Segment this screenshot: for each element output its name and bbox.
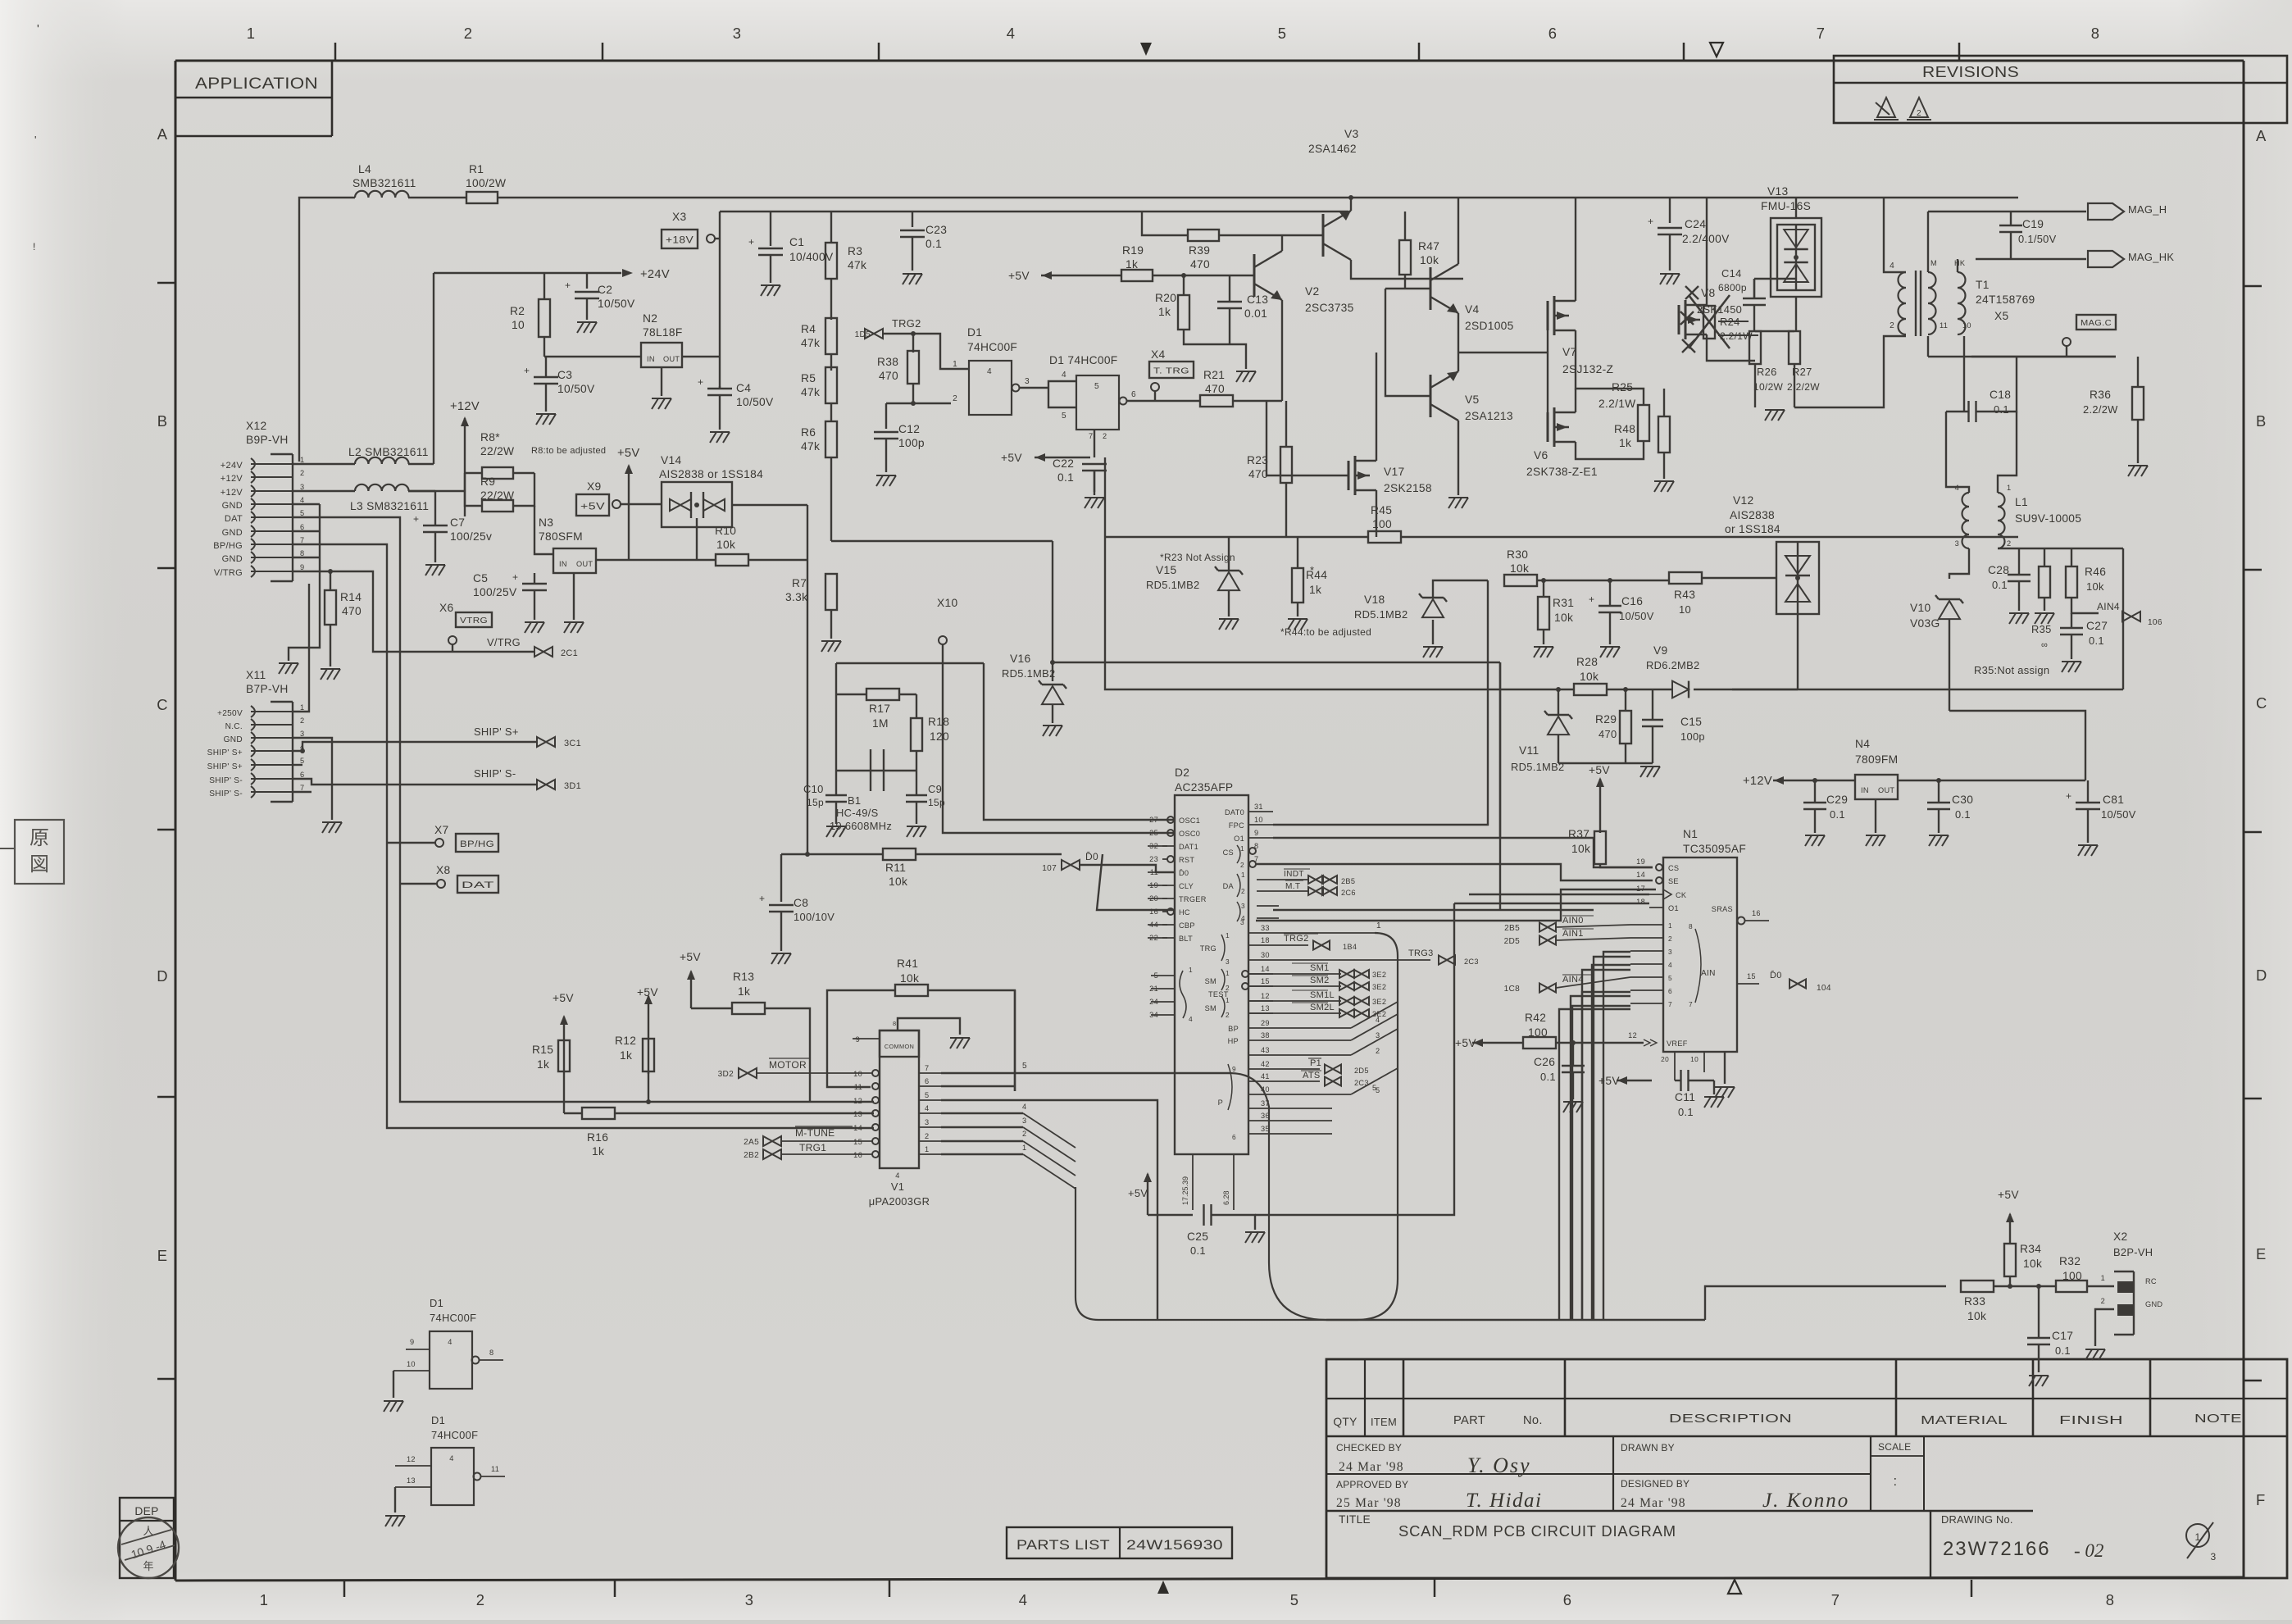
svg-text:1: 1 [247, 25, 256, 42]
svg-text:BP: BP [1228, 1025, 1239, 1033]
svg-text:7809FM: 7809FM [1855, 753, 1898, 766]
svg-text:4: 4 [1019, 1591, 1028, 1608]
svg-text:2: 2 [1241, 887, 1245, 895]
svg-text:R3: R3 [848, 245, 862, 257]
svg-text:+: + [524, 365, 530, 376]
svg-text:7: 7 [1689, 1000, 1693, 1008]
svg-text:DESIGNED BY: DESIGNED BY [1621, 1478, 1689, 1490]
wire +5V arrow C25 [1147, 1174, 1148, 1215]
svg-text:R31: R31 [1553, 597, 1574, 609]
svg-text:+5V: +5V [1998, 1189, 2019, 1201]
svg-text:X8: X8 [436, 864, 451, 876]
svg-text:HC-49/S: HC-49/S [836, 807, 879, 819]
sheet number 1/3 [2186, 1524, 2209, 1547]
svg-text:C8: C8 [794, 897, 808, 909]
wire X12 gnd pins [319, 504, 321, 557]
svg-text:ATS: ATS [1303, 1071, 1320, 1080]
svg-text:V4: V4 [1465, 303, 1480, 316]
svg-text:MAG_H: MAG_H [2128, 203, 2167, 216]
svg-text:D̄0: D̄0 [1179, 869, 1189, 877]
svg-text:C11: C11 [1675, 1091, 1695, 1103]
DEP box [120, 1498, 174, 1578]
svg-text:5: 5 [1062, 412, 1066, 421]
svg-text:9: 9 [856, 1035, 860, 1044]
svg-text:3: 3 [733, 25, 742, 42]
wire C22 to rail down [1104, 457, 1106, 537]
svg-text:3: 3 [1022, 1117, 1026, 1125]
resistor R8 [465, 472, 482, 474]
svg-text:A: A [157, 125, 168, 143]
svg-text:D̄0: D̄0 [1085, 851, 1098, 862]
wire +5V R15 [563, 1017, 565, 1071]
N1 ground [1724, 1052, 1726, 1084]
resistor R47 10k [1404, 212, 1406, 240]
svg-text:2B2: 2B2 [744, 1151, 759, 1160]
svg-text:C9: C9 [928, 783, 942, 795]
svg-text:V9: V9 [1653, 644, 1668, 657]
svg-text:V03G: V03G [1910, 617, 1940, 630]
svg-text:R48: R48 [1614, 423, 1635, 435]
wire V6 drain [1575, 389, 1576, 412]
svg-text:2: 2 [1917, 109, 1921, 118]
svg-text:+12V: +12V [221, 474, 243, 484]
svg-text:R26: R26 [1757, 366, 1777, 378]
capacitor C25 [1148, 1214, 1193, 1216]
transistor V3 2SA1462 [1322, 214, 1325, 257]
svg-text:2SC3735: 2SC3735 [1305, 302, 1354, 314]
svg-text:GND: GND [2145, 1300, 2162, 1308]
svg-text:C27: C27 [2086, 620, 2108, 632]
svg-text:4: 4 [448, 1338, 452, 1346]
svg-text:R12: R12 [615, 1035, 636, 1047]
svg-text:SHIP' S+: SHIP' S+ [207, 748, 243, 757]
svg-text:10/400V: 10/400V [789, 251, 834, 263]
svg-text:1: 1 [260, 1591, 269, 1608]
svg-text:100p: 100p [898, 437, 925, 449]
wire V4V5 base chain [1385, 288, 1405, 289]
svg-text:+12V: +12V [1743, 775, 1772, 788]
drawing number box [1930, 1511, 1931, 1578]
svg-text:100p: 100p [1680, 730, 1705, 743]
svg-text:+5V: +5V [1589, 764, 1610, 776]
svg-text:IN: IN [647, 355, 655, 363]
capacitor C9 [906, 794, 927, 796]
column ticks top [334, 43, 337, 61]
svg-text:FMU-16S: FMU-16S [1761, 200, 1811, 212]
wire DAT BP/HG taps [293, 517, 874, 1102]
svg-text:TC35095AF: TC35095AF [1683, 843, 1746, 855]
svg-text:3E2: 3E2 [1372, 971, 1386, 979]
svg-text:0.1: 0.1 [1994, 403, 2009, 416]
capacitor C8 [780, 854, 782, 902]
svg-text:C4: C4 [736, 382, 751, 394]
resistor R9 [465, 473, 482, 506]
svg-text:10k: 10k [1967, 1310, 1986, 1322]
wire C14 stems [1753, 328, 1755, 331]
wire CK long run [1469, 894, 1649, 895]
IC D2 bottom pins [1192, 1154, 1194, 1210]
svg-text:+5V: +5V [1008, 270, 1030, 282]
svg-text:R2: R2 [510, 305, 525, 317]
svg-text:C29: C29 [1826, 794, 1848, 806]
svg-text:B: B [157, 412, 168, 430]
svg-text:D2: D2 [1175, 767, 1189, 779]
svg-text:1: 1 [2101, 1274, 2105, 1282]
svg-text:V16: V16 [1010, 653, 1030, 665]
svg-text:+: + [2066, 790, 2071, 802]
svg-text:MOTOR: MOTOR [769, 1059, 807, 1071]
svg-text:CLY: CLY [1179, 882, 1194, 890]
bus V1 to bottom [1023, 1113, 1076, 1189]
revision triangle 2 [1907, 98, 1931, 120]
svg-text:RD5.1MB2: RD5.1MB2 [1354, 608, 1407, 621]
svg-text:X6: X6 [439, 602, 454, 614]
svg-text:9: 9 [410, 1338, 414, 1346]
svg-text:C5: C5 [473, 572, 488, 585]
wire L1 bottom node [1998, 548, 2123, 549]
svg-text:SHIP' S+: SHIP' S+ [474, 726, 519, 738]
svg-text:74HC00F: 74HC00F [431, 1429, 478, 1441]
svg-text:+5V: +5V [580, 501, 605, 512]
svg-text:10/50V: 10/50V [598, 298, 635, 310]
svg-text:2: 2 [2101, 1297, 2105, 1305]
svg-text:APPROVED BY: APPROVED BY [1336, 1479, 1408, 1490]
svg-text:74HC00F: 74HC00F [430, 1312, 476, 1324]
wire X11 +250V [293, 584, 309, 712]
svg-text:4: 4 [925, 1104, 929, 1112]
svg-text:0.1: 0.1 [2089, 635, 2104, 647]
wire V8 connections [1706, 198, 1708, 305]
svg-text:23W72166: 23W72166 [1943, 1538, 2051, 1560]
capacitor C12 [886, 403, 951, 404]
svg-text:V14: V14 [661, 454, 681, 466]
svg-text:SCAN_RDM PCB CIRCUIT DIAGRAM: SCAN_RDM PCB CIRCUIT DIAGRAM [1398, 1522, 1676, 1540]
resistor R2 [543, 273, 545, 298]
svg-text:SHIP' S-: SHIP' S- [209, 776, 243, 785]
svg-text:100: 100 [2062, 1270, 2082, 1282]
resistor R19 1k [1041, 275, 1122, 276]
svg-text:R29: R29 [1595, 713, 1617, 726]
capacitor C30 [1927, 802, 1950, 803]
svg-text:14: 14 [1636, 871, 1645, 879]
wire T1 primary [1884, 198, 1906, 272]
svg-text:*R44:to be adjusted: *R44:to be adjusted [1280, 626, 1371, 638]
svg-text:F: F [2256, 1491, 2266, 1508]
resistor R36 2.2/2W [2132, 387, 2144, 420]
column ticks bottom [343, 1580, 346, 1597]
connector MAG_HK [1963, 253, 1965, 255]
svg-text:*R23 Not Assign: *R23 Not Assign [1160, 552, 1235, 563]
svg-text:10k: 10k [889, 876, 907, 888]
svg-text:2: 2 [1376, 1047, 1380, 1055]
svg-text:2SK738-Z-E1: 2SK738-Z-E1 [1526, 466, 1598, 478]
svg-text:1: 1 [300, 456, 304, 464]
svg-text:OUT: OUT [576, 560, 593, 568]
svg-text:R46: R46 [2085, 566, 2106, 578]
svg-text:B1: B1 [848, 794, 861, 807]
svg-text:SHIP' S-: SHIP' S- [474, 767, 516, 780]
inductor L2 [355, 457, 409, 464]
svg-text:GND: GND [222, 501, 243, 511]
net MOTOR [757, 1072, 872, 1074]
svg-text:470: 470 [1190, 258, 1210, 271]
wire V13 top stub [1795, 198, 1797, 218]
connector MAG_H [2088, 203, 2124, 220]
svg-text:V/TRG: V/TRG [487, 636, 521, 648]
svg-text:DAT: DAT [462, 880, 494, 890]
svg-text:0.1: 0.1 [1057, 471, 1074, 484]
index triangle open top [1710, 43, 1723, 57]
svg-text:L2 SMB321611: L2 SMB321611 [348, 446, 429, 458]
svg-text:25 Mar '98: 25 Mar '98 [1336, 1496, 1402, 1510]
resistor R39 470 [1142, 212, 1189, 235]
wire bottom long rail [1326, 1319, 1705, 1321]
IC D2 right pins lower [1248, 932, 1273, 934]
svg-text:8: 8 [300, 549, 304, 557]
svg-text:C16: C16 [1621, 595, 1643, 607]
svg-text:E: E [2256, 1245, 2267, 1262]
wire +24V arrow [433, 273, 434, 464]
svg-text:TRGER: TRGER [1179, 895, 1207, 903]
svg-text:C14: C14 [1721, 267, 1742, 280]
svg-text:V1: V1 [891, 1180, 904, 1193]
svg-text:D: D [2256, 967, 2267, 984]
svg-text:AIS2838: AIS2838 [1730, 509, 1775, 521]
wire R41 to bus corner [1014, 990, 1016, 1091]
resistor R37 10k [1594, 831, 1606, 864]
svg-text:8: 8 [2106, 1591, 2115, 1608]
wire R6 R7 branch [831, 540, 1053, 542]
wire +18V rail [720, 211, 1348, 212]
svg-text:3: 3 [1668, 948, 1672, 956]
svg-text:15: 15 [1261, 977, 1270, 985]
svg-text:!: ! [33, 241, 36, 252]
svg-text:22/2W: 22/2W [480, 489, 514, 502]
svg-text:24W156930: 24W156930 [1126, 1537, 1223, 1553]
wire right power node [1754, 364, 1756, 407]
svg-text:1: 1 [953, 360, 957, 369]
wire 985 down join [805, 852, 810, 857]
wire X2 gnd [2095, 1309, 2114, 1346]
resistor R48 1k [1658, 416, 1670, 453]
resistor R26 10/2W [1749, 331, 1761, 364]
APPLICATION title box [175, 97, 332, 99]
svg-text:2SD1005: 2SD1005 [1465, 320, 1514, 332]
svg-text:年: 年 [143, 1560, 153, 1572]
bracket SM pins [1242, 971, 1248, 977]
svg-text:+5V: +5V [680, 951, 701, 963]
svg-text:4: 4 [449, 1454, 453, 1463]
svg-text:10k: 10k [1510, 562, 1529, 575]
crystal B1 [870, 749, 871, 791]
resistor R34 10k [2009, 1214, 2011, 1243]
transistor V4 2SD1005 [1430, 267, 1432, 310]
svg-text:3D1: 3D1 [564, 781, 581, 791]
svg-text:7: 7 [925, 1064, 929, 1072]
svg-text:11: 11 [1940, 321, 1948, 330]
N1 bottom pins [1674, 1052, 1676, 1080]
svg-text:SM1: SM1 [1310, 963, 1330, 973]
svg-text:0.01: 0.01 [1244, 307, 1267, 320]
svg-text:6: 6 [300, 523, 304, 531]
svg-text:3: 3 [1226, 958, 1230, 966]
net D0 out [1737, 983, 1759, 985]
wire +24V top rail [299, 198, 355, 462]
date stamp [118, 1517, 179, 1578]
svg-text:10k: 10k [900, 972, 919, 985]
svg-text:SM1L: SM1L [1310, 990, 1335, 1000]
svg-text:5: 5 [925, 1091, 929, 1099]
wire gate2 power [1094, 430, 1095, 457]
svg-text:10/50V: 10/50V [1619, 610, 1654, 622]
svg-text:J. Konno: J. Konno [1762, 1490, 1849, 1512]
svg-text:R33: R33 [1964, 1295, 1985, 1308]
svg-text:B: B [2256, 412, 2267, 430]
svg-text:VTRG: VTRG [460, 616, 488, 625]
svg-text:38: 38 [1261, 1031, 1270, 1039]
svg-text:+5V: +5V [1455, 1037, 1476, 1049]
svg-text:R4: R4 [801, 323, 816, 335]
svg-text:R39: R39 [1189, 244, 1210, 257]
svg-text:0.1: 0.1 [1540, 1071, 1556, 1083]
svg-text:11: 11 [491, 1465, 499, 1473]
svg-text:7: 7 [300, 784, 304, 792]
svg-text:3: 3 [1955, 539, 1959, 548]
sheet frame [175, 60, 2244, 62]
wire X5 row [1971, 356, 2116, 357]
svg-text:6: 6 [925, 1077, 929, 1085]
svg-text:R5: R5 [801, 372, 816, 384]
net SM1 SM2 SM1L SM2L [1248, 973, 1341, 975]
svg-text:1k: 1k [537, 1058, 549, 1071]
svg-text:19: 19 [1636, 857, 1645, 866]
svg-text:D1: D1 [967, 326, 982, 339]
svg-text:1: 1 [300, 703, 304, 712]
svg-text:X7: X7 [434, 824, 448, 836]
svg-text:V17: V17 [1384, 466, 1404, 478]
svg-text:10: 10 [407, 1360, 416, 1368]
svg-text:R21: R21 [1203, 369, 1225, 381]
svg-text:23: 23 [1149, 855, 1158, 863]
svg-text:TRG3: TRG3 [1408, 948, 1434, 958]
wire V3 collector bus [1348, 195, 1353, 200]
svg-text:HK: HK [1954, 259, 1966, 267]
svg-text:RC: RC [2145, 1277, 2157, 1285]
svg-text:DESCRIPTION: DESCRIPTION [1669, 1412, 1792, 1426]
svg-text:R35:Not assign: R35:Not assign [1974, 664, 2049, 676]
svg-text:CBP: CBP [1179, 921, 1195, 930]
svg-text:TRG2: TRG2 [892, 317, 921, 330]
svg-text:1: 1 [1226, 931, 1230, 939]
svg-text:C13: C13 [1247, 293, 1268, 306]
svg-text:6: 6 [1131, 390, 1136, 399]
svg-text:100/25v: 100/25v [450, 530, 492, 543]
wire crystal row [836, 770, 916, 771]
wire V16 to O1 row [1053, 662, 1500, 663]
wire V1 outputs to bus [941, 1072, 1230, 1074]
svg-text:+12V: +12V [221, 488, 243, 498]
svg-text:24T158769: 24T158769 [1976, 293, 2035, 306]
svg-text:2SK2158: 2SK2158 [1384, 482, 1432, 494]
svg-text:4: 4 [1022, 1103, 1026, 1111]
svg-text:+: + [1589, 594, 1594, 605]
wire V17 drain source [1376, 353, 1377, 461]
svg-text:R9: R9 [480, 475, 495, 488]
svg-text::: : [1894, 1473, 1898, 1489]
resistor R43 10 [1669, 572, 1702, 584]
wire V7 source R25 [1575, 330, 1576, 353]
wire CS2 to SE [1256, 864, 1653, 880]
wire osc top [836, 662, 984, 664]
svg-text:2.2/2W: 2.2/2W [1787, 381, 1820, 393]
svg-text:1M: 1M [872, 717, 889, 730]
svg-text:1: 1 [1241, 871, 1245, 879]
svg-text:7: 7 [1817, 25, 1826, 42]
svg-text:GND: GND [222, 528, 243, 538]
svg-text:41: 41 [1261, 1072, 1270, 1080]
wire N1 AIN taps down [1594, 957, 1630, 1320]
capacitor C7 [423, 525, 448, 526]
svg-text:470: 470 [342, 605, 362, 617]
svg-text:R23: R23 [1247, 454, 1268, 466]
svg-text:15: 15 [1747, 972, 1756, 980]
svg-text:4: 4 [1007, 25, 1016, 42]
svg-text:X11: X11 [246, 669, 266, 681]
resistor R6 47k [825, 421, 837, 457]
wire V7 drain to rail [1575, 198, 1576, 301]
svg-text:1k: 1k [1309, 584, 1321, 596]
svg-text:': ' [37, 23, 39, 36]
resistor R30 10k [1504, 575, 1537, 586]
wire +12V feed [1773, 780, 1855, 781]
transistor V8 2SK1450 [1678, 305, 1680, 334]
svg-text:OUT: OUT [1878, 786, 1894, 794]
bus merge slashes [1273, 1027, 1351, 1029]
svg-text:*: * [1310, 564, 1314, 576]
svg-text:V/TRG: V/TRG [214, 568, 243, 578]
title block table [1326, 1359, 2287, 1578]
svg-text:17.25.39: 17.25.39 [1181, 1176, 1189, 1205]
svg-text:10k: 10k [716, 539, 735, 551]
svg-text:4: 4 [1189, 1015, 1193, 1023]
REVISIONS box [1834, 56, 2287, 123]
row ticks left [157, 282, 175, 284]
svg-text:C81: C81 [2103, 794, 2124, 806]
resistor R28 10k [1574, 684, 1607, 695]
svg-text:+: + [512, 571, 518, 583]
svg-text:15: 15 [853, 1138, 862, 1146]
svg-text:8: 8 [1689, 922, 1693, 930]
svg-text:L3 SM8321611: L3 SM8321611 [350, 500, 429, 512]
svg-text:TITLE: TITLE [1339, 1513, 1371, 1526]
svg-text:C2: C2 [598, 284, 612, 296]
svg-text:TRG1: TRG1 [799, 1142, 826, 1153]
transistor V17 2SK2158 [1348, 461, 1350, 490]
svg-text:0.1: 0.1 [2055, 1344, 2071, 1357]
svg-text:D̄0: D̄0 [1770, 970, 1782, 980]
svg-text:V5: V5 [1465, 393, 1480, 406]
wire V17 gate feed [1267, 401, 1328, 475]
svg-text:C: C [157, 696, 168, 713]
capacitor C26 [1562, 1065, 1585, 1067]
wire N1 AIN taps down [1603, 952, 1630, 1320]
resistor R14 [293, 571, 330, 572]
svg-text:R17: R17 [869, 703, 890, 715]
svg-text:T. Hidai: T. Hidai [1466, 1490, 1543, 1512]
svg-text:3: 3 [925, 1118, 929, 1126]
wire V6 source R25 bottom [1576, 441, 1644, 459]
svg-text:30: 30 [1261, 951, 1270, 959]
